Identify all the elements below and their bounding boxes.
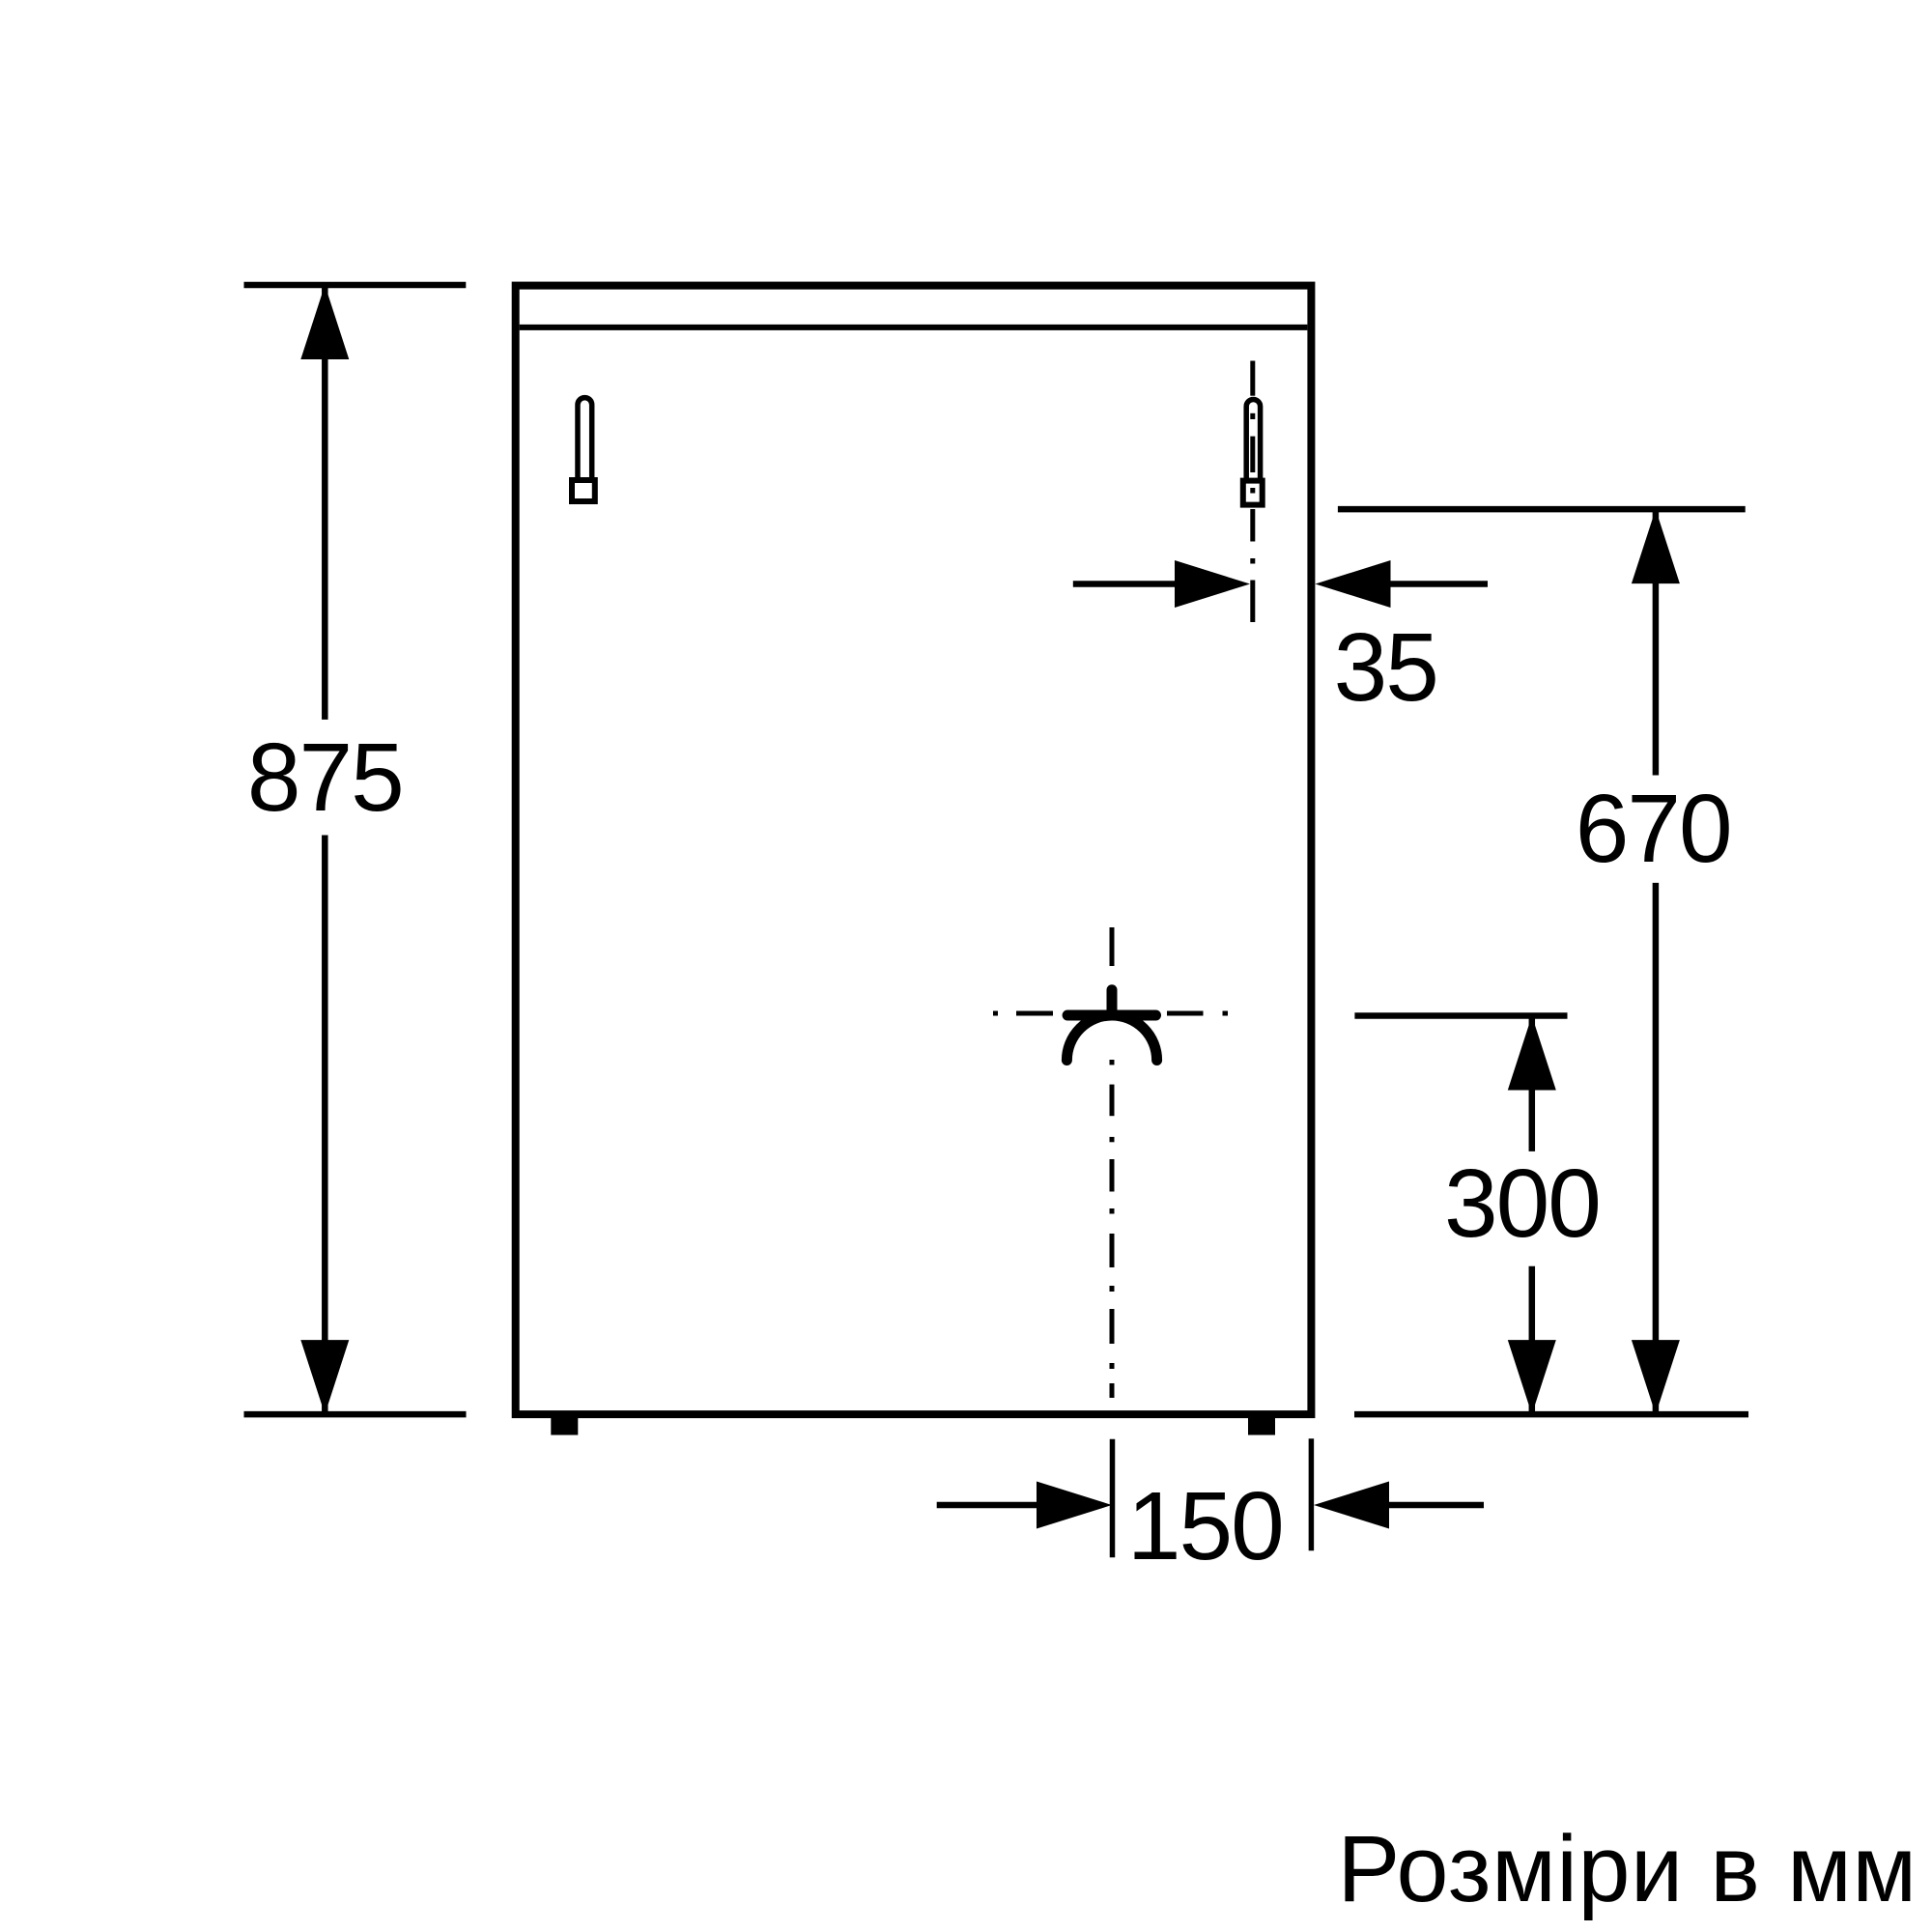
- svg-text:Розміри в мм: Розміри в мм: [1338, 1816, 1918, 1921]
- svg-text:35: 35: [1334, 613, 1437, 722]
- svg-text:670: 670: [1576, 775, 1731, 883]
- svg-text:150: 150: [1127, 1472, 1283, 1580]
- svg-text:300: 300: [1444, 1150, 1600, 1258]
- svg-text:875: 875: [247, 724, 403, 832]
